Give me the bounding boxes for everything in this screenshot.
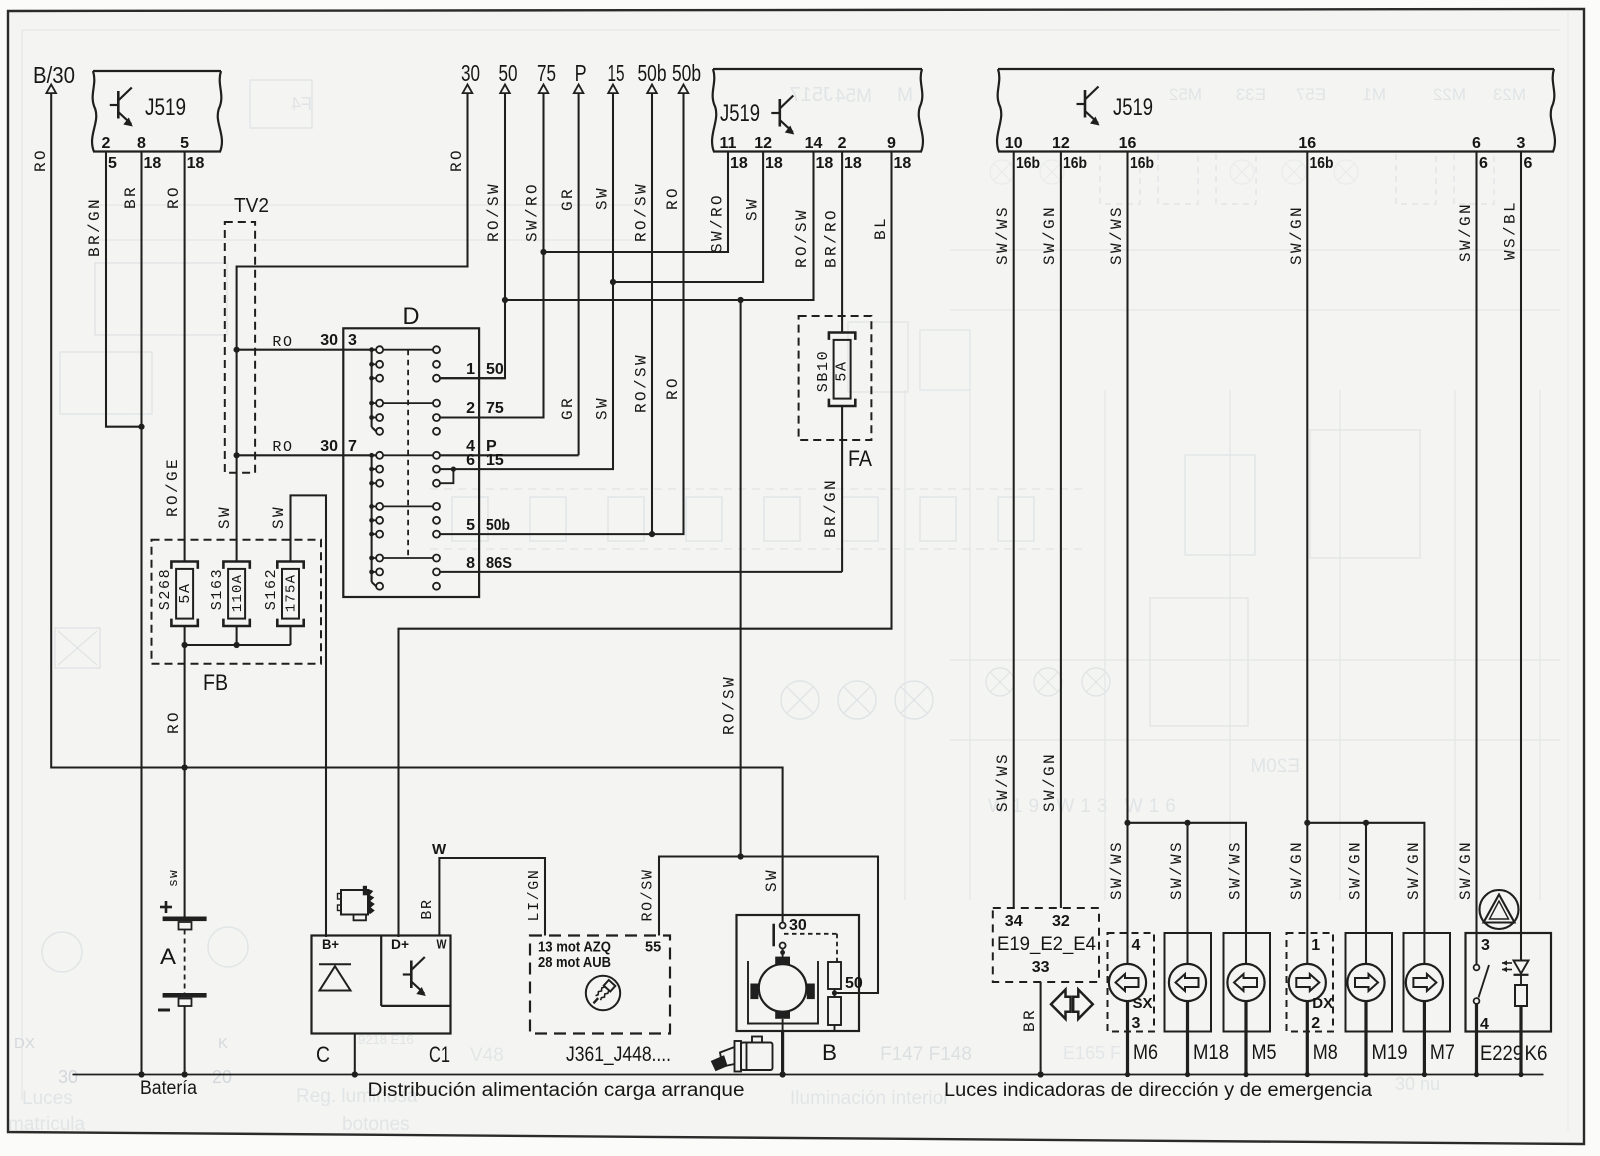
fuse SB10 5A in holder FA	[799, 316, 872, 440]
svg-text:W19 W13 W16: W19 W13 W16	[988, 796, 1182, 817]
svg-text:30 nu: 30 nu	[1395, 1074, 1440, 1094]
svg-text:E19_E2_E4: E19_E2_E4	[997, 933, 1096, 955]
wire SW/WS pin 10 to E19 pin 34	[1013, 152, 1015, 909]
svg-text:A: A	[160, 944, 176, 969]
svg-text:Iluminación interior: Iluminación interior	[790, 1088, 950, 1109]
svg-text:86S: 86S	[486, 555, 512, 572]
wire SW/WS pin 16 to left turn lamps	[1126, 152, 1128, 964]
svg-text:BL: BL	[872, 216, 890, 240]
svg-text:50: 50	[486, 361, 504, 378]
svg-text:M23: M23	[1493, 85, 1526, 104]
svg-text:J519: J519	[720, 100, 760, 127]
wire C ground to bottom rail	[354, 1034, 356, 1075]
svg-text:18: 18	[844, 155, 862, 172]
svg-text:50: 50	[499, 60, 518, 86]
svg-text:110A: 110A	[230, 574, 246, 612]
wire RO/SW from net to J361 pin 55 and starter 50	[659, 857, 878, 994]
svg-text:50: 50	[845, 975, 863, 992]
svg-text:SW/GN: SW/GN	[1041, 752, 1059, 812]
turn signal lamp M7	[1404, 933, 1451, 1032]
wire SW/RO terminal 75 to ignition switch contact 2	[440, 93, 544, 417]
svg-text:S268: S268	[157, 568, 174, 610]
svg-text:RO/SW: RO/SW	[721, 675, 739, 735]
svg-text:55: 55	[645, 940, 661, 956]
junction battery positive on bus	[182, 764, 188, 770]
wire BR/GN from fuse SB10 to contact 8 86S	[841, 406, 843, 572]
hazard switch E229 with lamp K6 box	[1466, 933, 1552, 1032]
switch contacts E229	[1474, 965, 1480, 971]
svg-text:1: 1	[466, 361, 475, 378]
svg-text:16b: 16b	[1130, 155, 1154, 172]
svg-text:S162: S162	[263, 568, 280, 610]
svg-text:J519: J519	[145, 94, 186, 121]
svg-text:175A: 175A	[284, 574, 300, 612]
svg-text:M6: M6	[1133, 1041, 1158, 1064]
svg-text:C: C	[316, 1042, 330, 1067]
control unit J519 (top right)	[998, 68, 1554, 70]
wire SW terminal 15 to ignition switch contact 6	[440, 93, 613, 469]
svg-text:M7: M7	[1430, 1041, 1455, 1064]
wire BR from J519 pin 8 to bottom rail	[140, 152, 142, 1075]
svg-text:sw: sw	[166, 869, 181, 887]
svg-text:SW: SW	[744, 197, 762, 221]
svg-text:M22: M22	[1433, 85, 1466, 104]
svg-text:75: 75	[537, 60, 556, 86]
svg-text:RO/SW: RO/SW	[793, 208, 811, 268]
svg-text:FA: FA	[848, 446, 872, 471]
svg-text:D: D	[403, 303, 420, 330]
svg-text:SX: SX	[1133, 995, 1153, 1012]
svg-text:16: 16	[1298, 135, 1316, 152]
svg-text:M: M	[897, 85, 913, 106]
turn signal lamp M5	[1224, 933, 1271, 1032]
svg-text:RO/GE: RO/GE	[164, 457, 182, 517]
svg-text:30: 30	[58, 1067, 78, 1087]
svg-text:7: 7	[348, 438, 357, 455]
svg-text:SB10: SB10	[815, 350, 832, 392]
glow plug symbol in J361	[586, 976, 620, 1010]
fuse panel common bus	[184, 626, 186, 645]
svg-text:6: 6	[466, 452, 475, 469]
svg-text:DX: DX	[14, 1035, 35, 1052]
contact 30/7 line into switch	[237, 454, 377, 456]
svg-text:18: 18	[765, 155, 783, 172]
svg-text:E57: E57	[1296, 85, 1326, 104]
svg-text:9: 9	[887, 135, 896, 152]
svg-text:30: 30	[789, 917, 807, 934]
wire W from regulator to J361 pin 13	[439, 858, 545, 936]
wire RO/SW terminal 50b first	[651, 93, 653, 534]
contact 2 75 exit	[440, 416, 544, 418]
svg-text:J361_J448....: J361_J448....	[566, 1042, 671, 1066]
svg-text:W: W	[437, 937, 448, 952]
svg-text:34: 34	[1005, 913, 1023, 930]
ignition switch internal contacts	[376, 346, 383, 353]
svg-text:2: 2	[466, 400, 475, 417]
svg-text:6: 6	[1472, 135, 1481, 152]
svg-text:11: 11	[720, 135, 737, 152]
svg-text:5: 5	[466, 517, 475, 534]
svg-text:J517: J517	[790, 84, 833, 106]
svg-text:10: 10	[1005, 135, 1023, 152]
control unit J519 (top middle)	[713, 68, 922, 70]
svg-text:M1: M1	[1362, 85, 1386, 104]
svg-text:botones: botones	[342, 1114, 410, 1135]
svg-text:SW/WS: SW/WS	[1108, 205, 1126, 265]
svg-text:50b: 50b	[638, 60, 667, 86]
fuse S163 110A	[223, 562, 249, 569]
wire BR/RO from pin 2 to fuse SB10	[841, 152, 843, 333]
svg-text:J519: J519	[1113, 94, 1153, 121]
wire BR from E19 pin 33 to bottom rail	[1040, 982, 1042, 1075]
svg-text:18: 18	[730, 155, 748, 172]
svg-text:16b: 16b	[1016, 155, 1040, 172]
svg-text:SW: SW	[216, 505, 234, 529]
svg-text:RO: RO	[272, 439, 293, 456]
svg-text:RO/SW: RO/SW	[633, 182, 651, 242]
svg-text:Luces: Luces	[22, 1088, 73, 1109]
svg-text:SW/GN: SW/GN	[1405, 840, 1423, 900]
svg-text:BR: BR	[122, 185, 140, 209]
wire BL from pin 9 to regulator D+	[399, 152, 892, 938]
svg-text:BR: BR	[1021, 1008, 1039, 1032]
warning lamp K6 LED and resistor	[1514, 961, 1529, 974]
svg-text:M54: M54	[835, 86, 872, 107]
svg-text:18: 18	[894, 155, 912, 172]
svg-text:SW/WS: SW/WS	[994, 205, 1012, 265]
svg-text:C1: C1	[429, 1042, 450, 1067]
svg-text:DX: DX	[1312, 995, 1333, 1012]
svg-text:LI/GN: LI/GN	[526, 868, 543, 921]
svg-text:BR/RO: BR/RO	[823, 208, 841, 268]
wire RO from B/30 down to battery bus	[51, 93, 782, 922]
wire GR terminal P	[578, 93, 580, 455]
starter solenoid linkage and windings	[784, 933, 837, 935]
wire RO terminal 50b second to contact 5	[440, 93, 684, 534]
svg-text:12: 12	[754, 135, 772, 152]
svg-text:GR: GR	[559, 396, 577, 420]
svg-text:F4: F4	[291, 94, 312, 114]
svg-text:6: 6	[1479, 155, 1488, 172]
svg-text:W: W	[432, 841, 447, 858]
svg-text:SW: SW	[594, 396, 612, 420]
turn signal lamp M18	[1165, 933, 1212, 1032]
svg-text:P: P	[575, 60, 587, 86]
svg-text:5A: 5A	[834, 360, 851, 381]
engine control unit J361_J448	[530, 936, 670, 1034]
wire RO from J519 pin 5 to fuse S268	[184, 152, 186, 562]
svg-text:2: 2	[838, 135, 847, 152]
starter B	[737, 915, 860, 1031]
svg-text:2: 2	[102, 135, 111, 152]
wire WS/BL pin 3 to warning lamp K6	[1520, 152, 1522, 961]
wire RO/SW riser from distribution net	[740, 300, 742, 857]
bottom rail	[73, 1074, 1544, 1076]
svg-text:V48: V48	[470, 1045, 504, 1066]
fuse S162 175A	[277, 562, 303, 569]
wire SW S162 to alternator B+	[291, 495, 327, 937]
svg-text:6: 6	[1524, 155, 1533, 172]
svg-text:RO: RO	[32, 148, 50, 172]
junction TV2 wire to contact 30/3	[234, 347, 240, 353]
svg-text:5A: 5A	[177, 582, 194, 603]
svg-text:SW/GN: SW/GN	[1288, 205, 1306, 265]
fuse S268 5A	[171, 562, 197, 569]
svg-text:TV2: TV2	[234, 195, 269, 217]
svg-text:RO: RO	[165, 710, 183, 734]
svg-text:RO: RO	[272, 334, 293, 351]
wire battery negative to bottom rail	[184, 1006, 186, 1075]
svg-text:50b: 50b	[672, 60, 701, 86]
wire SW from pin 12 to 15 line	[613, 152, 763, 283]
svg-text:18: 18	[144, 155, 162, 172]
svg-text:SW/GN: SW/GN	[1347, 840, 1365, 900]
svg-text:RO: RO	[165, 185, 183, 209]
svg-text:20: 20	[212, 1067, 232, 1087]
svg-text:SW/GN: SW/GN	[1457, 840, 1475, 900]
wire RO terminal 30 to TV2 splice and fuse S163	[237, 93, 468, 561]
svg-text:Distribución alimentación carg: Distribución alimentación carga arranque	[368, 1080, 745, 1101]
svg-text:B: B	[822, 1040, 837, 1065]
svg-text:8: 8	[466, 555, 475, 572]
svg-text:M8: M8	[1313, 1041, 1338, 1064]
svg-text:BR/GN: BR/GN	[86, 197, 104, 257]
svg-text:M18: M18	[1193, 1041, 1229, 1064]
wire SW/RO from pin 11 to 75 line	[544, 152, 729, 253]
starter pictogram	[712, 1037, 773, 1072]
wire SW/GN pin 6 to hazard switch E229	[1475, 152, 1477, 965]
svg-text:SW/WS: SW/WS	[994, 752, 1012, 812]
contact 4 P exit	[440, 454, 579, 456]
svg-text:RO/SW: RO/SW	[485, 182, 503, 242]
svg-text:5: 5	[108, 155, 117, 172]
svg-text:2: 2	[1311, 1015, 1320, 1032]
turn signal lamp M6	[1108, 933, 1155, 1032]
svg-text:3: 3	[1132, 1015, 1141, 1032]
svg-text:SW/WS: SW/WS	[1108, 840, 1126, 900]
contact 30/3 line into switch	[237, 349, 377, 351]
svg-text:30: 30	[320, 332, 338, 349]
svg-text:RO: RO	[664, 186, 682, 210]
svg-text:E165 F: E165 F	[1063, 1043, 1121, 1063]
alternator pictogram	[341, 890, 368, 915]
alternator C	[312, 936, 451, 1034]
svg-text:14: 14	[805, 135, 823, 152]
turn signal lamp M19	[1346, 933, 1393, 1032]
svg-text:16: 16	[1119, 135, 1137, 152]
svg-text:15: 15	[486, 452, 504, 469]
svg-text:50b: 50b	[486, 517, 510, 534]
svg-text:SW/WS: SW/WS	[1168, 840, 1186, 900]
svg-text:B+: B+	[322, 936, 339, 952]
svg-text:SW/GN: SW/GN	[1041, 205, 1059, 265]
svg-text:GR: GR	[559, 187, 577, 211]
hazard warning symbol	[1480, 890, 1519, 929]
node RO/SW distribution (net at y300)	[502, 297, 508, 303]
svg-text:D+: D+	[391, 936, 409, 952]
svg-text:SW: SW	[763, 868, 781, 892]
svg-text:18: 18	[187, 155, 205, 172]
contact 8 86S exit	[440, 571, 842, 573]
svg-text:15: 15	[608, 60, 625, 86]
svg-text:8: 8	[137, 135, 146, 152]
svg-text:Luces indicadoras de dirección: Luces indicadoras de dirección y de emer…	[944, 1080, 1372, 1101]
svg-text:RO: RO	[448, 148, 466, 172]
svg-text:K: K	[218, 1035, 228, 1052]
svg-text:SW/RO: SW/RO	[524, 182, 542, 242]
svg-text:K6: K6	[1525, 1042, 1548, 1065]
svg-text:RO: RO	[664, 376, 682, 400]
svg-text:3: 3	[348, 332, 357, 349]
wire SW/GN pin 12 to E19 pin 32	[1060, 152, 1062, 909]
svg-text:4: 4	[1132, 937, 1141, 954]
svg-text:SW: SW	[594, 186, 612, 210]
svg-text:BR/GN: BR/GN	[822, 478, 840, 538]
svg-text:SW/GN: SW/GN	[1288, 840, 1306, 900]
svg-text:F147 F148: F147 F148	[880, 1044, 972, 1065]
svg-text:13 mot AZQ: 13 mot AZQ	[538, 940, 611, 956]
svg-text:M5: M5	[1252, 1041, 1277, 1064]
svg-text:Batería: Batería	[140, 1078, 197, 1099]
svg-text:S163: S163	[209, 568, 226, 610]
svg-text:3: 3	[1517, 135, 1526, 152]
svg-text:B/30: B/30	[33, 62, 75, 88]
svg-text:5: 5	[180, 135, 189, 152]
wire SW/GN pin 16 to right turn lamps	[1306, 152, 1308, 964]
svg-text:SW/GN: SW/GN	[1457, 202, 1475, 262]
svg-text:12: 12	[1052, 135, 1070, 152]
wire RO/SW terminal 50 to ignition switch contact 1	[440, 93, 505, 378]
svg-text:FB: FB	[203, 670, 228, 695]
control unit J519 (top left)	[93, 70, 221, 72]
svg-text:32: 32	[1052, 913, 1070, 930]
svg-text:16b: 16b	[1310, 155, 1334, 172]
junction BR/GN joins BR	[138, 424, 144, 430]
svg-text:SW/WS: SW/WS	[1227, 840, 1245, 900]
svg-text:3: 3	[1481, 937, 1490, 954]
splice TV2	[225, 222, 255, 473]
ignition switch D	[343, 328, 479, 597]
wire RO fuse panel to battery	[184, 645, 186, 917]
svg-text:E20M: E20M	[1250, 756, 1300, 777]
wire BR/GN from J519 pin 2	[106, 152, 142, 427]
svg-text:30: 30	[461, 60, 480, 86]
fuse panel FB	[152, 540, 322, 664]
svg-text:E229: E229	[1480, 1042, 1523, 1065]
svg-text:16b: 16b	[1063, 155, 1087, 172]
svg-text:BR: BR	[419, 898, 436, 919]
svg-text:18: 18	[816, 155, 834, 172]
turn signal direction icon	[1051, 990, 1071, 1019]
turn signal switch E19_E2_E4	[993, 908, 1099, 982]
svg-text:SW/RO: SW/RO	[709, 193, 727, 253]
svg-text:28 mot AUB: 28 mot AUB	[538, 955, 611, 971]
voltage regulator C1	[380, 936, 382, 1006]
svg-text:WS/BL: WS/BL	[1502, 200, 1520, 260]
svg-text:75: 75	[486, 400, 504, 417]
svg-text:M19: M19	[1372, 1041, 1408, 1064]
svg-text:E33: E33	[1236, 85, 1266, 104]
svg-text:33: 33	[1032, 959, 1050, 976]
svg-text:RO/SW: RO/SW	[640, 868, 657, 921]
svg-text:1: 1	[1311, 937, 1320, 954]
svg-text:30: 30	[320, 438, 338, 455]
svg-text:SW: SW	[270, 505, 288, 529]
contact 1 50 exit	[440, 377, 505, 379]
svg-text:RO/SW: RO/SW	[633, 353, 651, 413]
junction TV2 wire to contact 30/7	[234, 452, 240, 458]
wire starter B to bottom rail (thick)	[781, 1031, 784, 1075]
turn signal lamp M8	[1287, 933, 1334, 1032]
svg-text:M52: M52	[1169, 85, 1202, 104]
svg-text:4: 4	[1480, 1016, 1489, 1033]
